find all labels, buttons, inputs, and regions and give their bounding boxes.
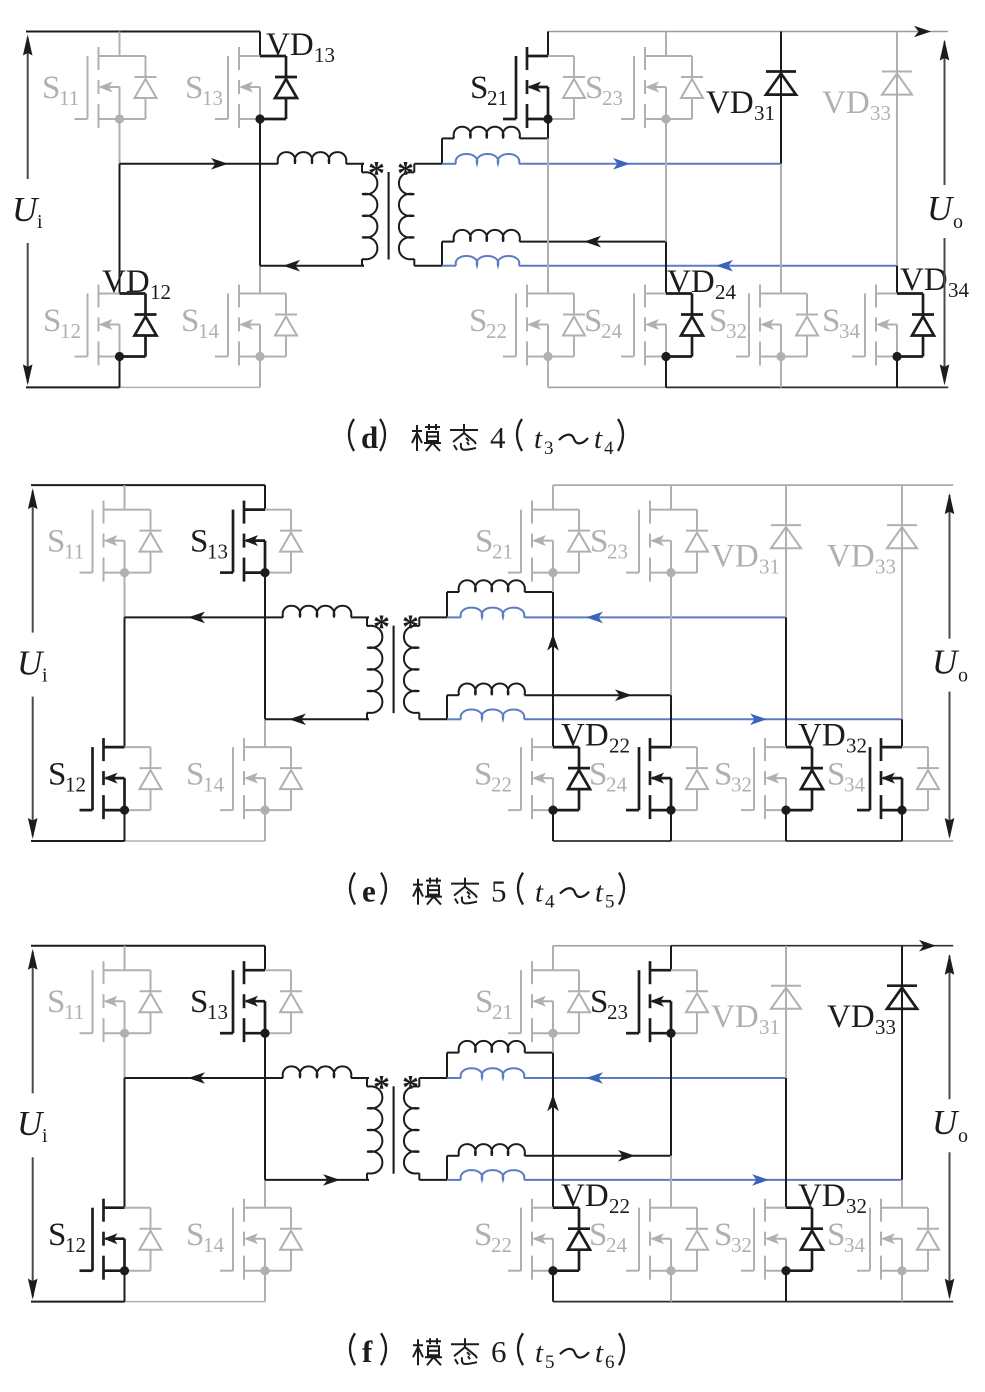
svg-text:11: 11 (59, 86, 79, 110)
wire primary bottom (260, 265, 364, 267)
svg-text:6: 6 (491, 1334, 507, 1369)
Ui voltage arrow (28, 488, 38, 839)
svg-text:21: 21 (492, 1000, 513, 1024)
label VD13 (266, 27, 335, 67)
caption (e) (350, 873, 624, 913)
wire S32 drain lead (785, 1078, 787, 1208)
arrow primary bottom current (283, 260, 300, 272)
bottom rail (input bridge) (26, 386, 260, 388)
svg-text:S: S (190, 984, 208, 1020)
svg-text:21: 21 (487, 86, 508, 110)
transistor S22 (MOSFET) (508, 738, 590, 819)
svg-text:S: S (827, 1217, 845, 1253)
transistor S11 (MOSFET, off) (75, 47, 157, 128)
arrow current up leg (547, 634, 559, 651)
diode VD33 (887, 946, 917, 1180)
svg-text:S: S (186, 1217, 204, 1253)
svg-text:23: 23 (607, 540, 628, 564)
wire S34 source stub (901, 1270, 903, 1301)
svg-text:31: 31 (759, 1015, 780, 1039)
svg-text:S: S (590, 524, 608, 560)
label S13 (185, 70, 223, 110)
svg-text:*: * (373, 1069, 390, 1106)
bottom rail (output side) (553, 1301, 953, 1303)
label VD12 (102, 264, 171, 304)
svg-text:i: i (42, 665, 48, 687)
transistor S23 (MOSFET) (626, 501, 708, 582)
svg-text:VD: VD (561, 1178, 609, 1214)
wire S23 drain lead (670, 946, 672, 971)
arrow primary top current (188, 1072, 205, 1084)
transistor S22 (MOSFET) (503, 285, 585, 366)
svg-text:33: 33 (875, 555, 896, 579)
svg-text:VD: VD (711, 539, 759, 575)
wire S12 source to bottom rail (124, 810, 126, 841)
top rail (output side) (548, 31, 948, 33)
label Ui (17, 1104, 48, 1147)
label S12 (48, 757, 86, 797)
wire S12 drain lead (124, 617, 126, 747)
label S32 (714, 757, 752, 797)
inductor L2 (top) (442, 127, 548, 139)
wire S24 source stub (670, 1270, 672, 1301)
arrow blue bottom current (716, 260, 733, 272)
svg-text:d: d (361, 420, 378, 455)
transistor S12 (MOSFET) (80, 1199, 162, 1280)
svg-text:34: 34 (844, 773, 866, 797)
wire S11 drain lead (124, 946, 126, 971)
transistor S12 (MOSFET) (80, 738, 162, 819)
svg-text:t: t (595, 877, 604, 909)
svg-text:24: 24 (606, 773, 628, 797)
label S14 (186, 1217, 225, 1257)
svg-text:S: S (42, 70, 60, 106)
svg-text:f: f (362, 1334, 373, 1369)
svg-text:U: U (927, 189, 955, 228)
wire S34 drain lead (901, 1180, 903, 1208)
label S23 (590, 524, 628, 564)
blue current path bottom winding (442, 256, 897, 266)
svg-text:o: o (958, 665, 968, 687)
svg-text:t: t (535, 877, 544, 909)
wire S11 source lead (119, 119, 121, 164)
label S22 (474, 757, 512, 797)
svg-text:13: 13 (314, 43, 335, 67)
svg-text:U: U (932, 643, 960, 682)
bottom rail (input bridge) (31, 1301, 265, 1303)
svg-text:13: 13 (202, 86, 223, 110)
transformer primary winding (367, 617, 382, 719)
wire primary top with inductor (125, 1066, 370, 1078)
label S34 (822, 303, 861, 343)
label S21 (475, 984, 513, 1024)
svg-text:32: 32 (731, 773, 752, 797)
svg-text:VD: VD (266, 27, 314, 63)
svg-text:11: 11 (64, 540, 84, 564)
svg-text:5: 5 (545, 1352, 555, 1373)
label Uo (932, 643, 968, 687)
svg-text:S: S (589, 757, 607, 793)
svg-text:S: S (474, 757, 492, 793)
svg-text:VD: VD (822, 85, 870, 121)
label S32 (714, 1217, 752, 1257)
svg-text:S: S (181, 303, 199, 339)
wire S12 source to bottom rail (124, 1270, 126, 1301)
wire primary top with inductor (120, 152, 365, 164)
label S21 (470, 70, 508, 110)
svg-text:VD: VD (706, 85, 754, 121)
svg-text:*: * (402, 609, 419, 646)
diode VD31 (766, 32, 796, 164)
arrow blue bottom current (750, 714, 767, 726)
svg-text:23: 23 (602, 86, 623, 110)
wire secondary winding bottom terminal (419, 695, 447, 719)
transistor S11 (MOSFET, off) (80, 501, 162, 582)
transformer secondary winding (399, 164, 414, 266)
bottom rail (output side) (548, 386, 948, 388)
label Ui (12, 190, 43, 233)
inductor L3 (bottom) (442, 230, 666, 242)
label S11 (47, 984, 84, 1024)
svg-text:i: i (42, 1125, 48, 1147)
label VD32 (798, 1178, 867, 1218)
wire secondary winding top terminal (419, 592, 447, 617)
wire S14 drain lead (264, 719, 266, 747)
caption (f) (350, 1333, 624, 1373)
svg-text:S: S (589, 1217, 607, 1253)
label Ui (17, 644, 48, 687)
svg-text:22: 22 (609, 1194, 630, 1218)
svg-text:VD: VD (102, 264, 150, 300)
arrow secondary mid current (615, 689, 632, 701)
transistor S22 (MOSFET) (508, 1199, 590, 1280)
svg-text:12: 12 (65, 773, 86, 797)
label S13 (190, 984, 228, 1024)
transformer secondary winding (404, 617, 419, 719)
svg-text:VD: VD (711, 999, 759, 1035)
top rail (input bridge) (31, 484, 265, 486)
wire S32 source stub (780, 356, 782, 387)
svg-text:S: S (475, 984, 493, 1020)
label VD33 (827, 999, 896, 1039)
transformer core (393, 1086, 395, 1174)
svg-text:S: S (185, 70, 203, 106)
caption (d) (349, 419, 623, 459)
svg-text:S: S (470, 70, 488, 106)
label VD33 (822, 85, 891, 125)
svg-text:22: 22 (486, 319, 507, 343)
wire S32 drain lead (785, 617, 787, 747)
wire S11 drain lead (119, 32, 121, 57)
svg-text:14: 14 (198, 319, 220, 343)
label S34 (827, 757, 866, 797)
label Uo (932, 1103, 968, 1147)
svg-text:VD: VD (827, 999, 875, 1035)
svg-text:5: 5 (605, 892, 615, 913)
transformer secondary winding (404, 1078, 419, 1180)
polarity dot secondary (402, 609, 419, 646)
Uo voltage arrow (945, 493, 955, 839)
transformer primary winding (367, 1078, 382, 1180)
wire secondary winding top terminal (419, 1053, 447, 1078)
svg-text:S: S (47, 984, 65, 1020)
transformer primary winding (362, 164, 377, 266)
arrow primary bottom current (289, 714, 306, 726)
diode VD31 (771, 946, 801, 1078)
svg-text:t: t (594, 423, 603, 455)
arrow primary top current (211, 158, 228, 170)
transistor S24 (MOSFET) (621, 285, 703, 366)
label VD31 (711, 999, 780, 1039)
svg-text:t: t (534, 423, 543, 455)
svg-text:S: S (475, 524, 493, 560)
polarity dot primary (373, 609, 390, 646)
wire S24 drain lead (665, 242, 667, 294)
wire secondary winding bottom terminal (419, 1156, 447, 1180)
wire S32 source stub (785, 1270, 787, 1301)
svg-text:21: 21 (492, 540, 513, 564)
transistor S34 (MOSFET) (857, 1199, 939, 1280)
transistor S32 (MOSFET) (741, 738, 823, 819)
polarity dot secondary (397, 155, 414, 192)
svg-text:S: S (186, 757, 204, 793)
svg-text:34: 34 (948, 278, 970, 302)
transistor S23 (MOSFET) (626, 961, 708, 1042)
transistor S21 (MOSFET) (503, 47, 585, 128)
label VD31 (706, 85, 775, 125)
transistor S34 (MOSFET) (857, 738, 939, 819)
svg-text:U: U (12, 190, 40, 229)
svg-text:3: 3 (544, 438, 554, 459)
wire S13 drain lead (264, 485, 266, 510)
svg-text:4: 4 (490, 420, 506, 455)
svg-text:13: 13 (207, 1000, 228, 1024)
svg-text:S: S (474, 1217, 492, 1253)
svg-text:*: * (402, 1069, 419, 1106)
wire S22 source stub (552, 810, 554, 841)
svg-text:34: 34 (839, 319, 861, 343)
wire S11 source lead (124, 1033, 126, 1078)
svg-text:24: 24 (606, 1233, 628, 1257)
label S32 (709, 303, 747, 343)
svg-text:33: 33 (870, 101, 891, 125)
svg-text:33: 33 (875, 1015, 896, 1039)
arrow blue top current (586, 612, 603, 624)
svg-text:14: 14 (203, 1233, 225, 1257)
arrow primary top current (188, 612, 205, 624)
wire S11 drain lead (124, 485, 126, 510)
svg-text:32: 32 (846, 734, 867, 758)
svg-text:S: S (584, 303, 602, 339)
svg-text:S: S (48, 757, 66, 793)
svg-text:34: 34 (844, 1233, 866, 1257)
transistor S32 (MOSFET) (741, 1199, 823, 1280)
arrow output current top rail (919, 940, 936, 952)
svg-text:5: 5 (491, 874, 507, 909)
svg-text:24: 24 (601, 319, 623, 343)
transistor S14 (MOSFET, off) (220, 1199, 302, 1280)
svg-text:23: 23 (607, 1000, 628, 1024)
svg-text:VD: VD (798, 718, 846, 754)
svg-text:e: e (362, 874, 376, 909)
wire S24 source stub (665, 356, 667, 387)
wire S14 source lead (259, 356, 261, 387)
label VD31 (711, 539, 780, 579)
svg-text:t: t (595, 1337, 604, 1369)
top rail (input bridge) (31, 945, 265, 947)
diode VD33 (882, 32, 912, 266)
polarity dot primary (368, 155, 385, 192)
wire S13 source to lower transformer wire (259, 119, 261, 266)
polarity dot primary (373, 1069, 390, 1106)
svg-text:31: 31 (759, 555, 780, 579)
wire primary bottom (265, 1179, 369, 1181)
wire S24 drain lead (670, 695, 672, 747)
svg-text:32: 32 (731, 1233, 752, 1257)
transistor S13 (MOSFET) (220, 501, 302, 582)
diode VD31 (771, 485, 801, 617)
svg-text:S: S (822, 303, 840, 339)
svg-text:S: S (714, 1217, 732, 1253)
transistor S13 (MOSFET) (220, 961, 302, 1042)
wire S14 drain lead (264, 1180, 266, 1208)
transistor S21 (MOSFET) (508, 961, 590, 1042)
svg-text:12: 12 (60, 319, 81, 343)
Ui voltage arrow (23, 35, 33, 386)
inductor L3 (bottom) (447, 1144, 671, 1156)
wire S21 drain lead (552, 946, 554, 971)
transistor S23 (MOSFET) (621, 47, 703, 128)
svg-text:6: 6 (605, 1352, 615, 1373)
label VD22 (561, 718, 630, 758)
svg-text:o: o (958, 1125, 968, 1147)
inductor L3 (bottom) (447, 684, 671, 696)
transistor S11 (MOSFET, off) (80, 961, 162, 1042)
svg-text:S: S (190, 524, 208, 560)
blue current path bottom winding (447, 1170, 902, 1180)
svg-text:U: U (932, 1103, 960, 1142)
label S12 (43, 303, 81, 343)
transistor S32 (MOSFET) (736, 285, 818, 366)
label S14 (181, 303, 220, 343)
Ui voltage arrow (28, 949, 38, 1300)
label S11 (42, 70, 79, 110)
label Uo (927, 189, 963, 233)
top rail (output side) (553, 945, 953, 947)
wire S23 drain lead (665, 32, 667, 57)
svg-text:31: 31 (754, 101, 775, 125)
inductor L2 (top) (447, 580, 553, 592)
arrow secondary mid current (618, 1150, 635, 1162)
wire S21 source stub (552, 573, 554, 592)
svg-text:S: S (469, 303, 487, 339)
svg-text:*: * (368, 155, 385, 192)
label VD33 (827, 539, 896, 579)
wire S12 drain lead (119, 164, 121, 294)
svg-text:VD: VD (827, 539, 875, 575)
wire S21 source stub (547, 119, 549, 138)
wire S23 drain lead (670, 485, 672, 510)
svg-text:11: 11 (64, 1000, 84, 1024)
wire S12 drain lead (124, 1078, 126, 1208)
wire primary bottom (265, 718, 369, 720)
svg-text:24: 24 (715, 280, 737, 304)
arrow blue top current (613, 158, 630, 170)
wire S22 drain lead (552, 592, 554, 747)
transformer core (388, 172, 390, 260)
label VD34 (900, 262, 970, 302)
polarity dot secondary (402, 1069, 419, 1106)
wire S13 drain lead (264, 946, 266, 971)
top rail (input bridge) (26, 31, 260, 33)
svg-text:13: 13 (207, 540, 228, 564)
wire S34 drain lead (896, 266, 898, 294)
label VD24 (667, 264, 737, 304)
label S13 (190, 524, 228, 564)
svg-text:S: S (709, 303, 727, 339)
svg-text:12: 12 (65, 1233, 86, 1257)
blue current path top winding (442, 154, 781, 164)
transistor S14 (MOSFET, off) (215, 285, 297, 366)
wire S34 source stub (901, 810, 903, 841)
svg-text:S: S (47, 524, 65, 560)
wire S11 source lead (124, 573, 126, 618)
svg-text:S: S (43, 303, 61, 339)
wire S32 source stub (785, 810, 787, 841)
svg-text:12: 12 (150, 280, 171, 304)
label VD32 (798, 718, 867, 758)
wire S14 source lead (264, 1270, 266, 1301)
wire S23 source lead (665, 119, 667, 241)
svg-text:VD: VD (900, 262, 948, 298)
wire S21 drain lead (552, 485, 554, 510)
svg-text:4: 4 (604, 438, 614, 459)
svg-text:*: * (373, 609, 390, 646)
label S23 (585, 70, 623, 110)
blue current path bottom winding (447, 710, 902, 720)
svg-text:S: S (714, 757, 732, 793)
wire S13 drain lead (259, 32, 261, 57)
blue current path top winding (447, 1068, 786, 1078)
wire S21 drain lead (547, 32, 549, 57)
wire S24 source stub (670, 810, 672, 841)
svg-text:*: * (397, 155, 414, 192)
label S24 (589, 1217, 628, 1257)
top rail (output side) (553, 484, 953, 486)
wire S14 source lead (264, 810, 266, 841)
svg-text:U: U (17, 644, 45, 683)
svg-text:S: S (48, 1217, 66, 1253)
label S12 (48, 1217, 86, 1257)
label VD22 (561, 1178, 630, 1218)
wire S22 source stub (552, 1270, 554, 1301)
wire S13 source to lower transformer wire (264, 573, 266, 720)
svg-text:32: 32 (726, 319, 747, 343)
arrow secondary mid current (584, 236, 601, 248)
arrow blue top current (586, 1072, 603, 1084)
label S24 (589, 757, 628, 797)
label S22 (469, 303, 507, 343)
wire S22 source stub (547, 356, 549, 387)
label S11 (47, 524, 84, 564)
transistor S12 (MOSFET) (75, 285, 157, 366)
svg-text:VD: VD (667, 264, 715, 300)
arrow primary bottom current (323, 1174, 340, 1186)
label S34 (827, 1217, 866, 1257)
transformer core (393, 626, 395, 714)
wire secondary winding bottom terminal (414, 242, 442, 266)
wire S22 drain lead (552, 1053, 554, 1208)
